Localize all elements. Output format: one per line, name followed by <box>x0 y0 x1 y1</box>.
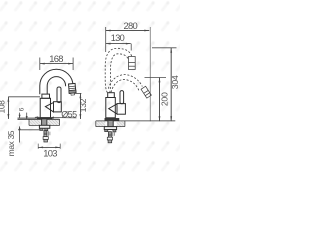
svg-text:130: 130 <box>111 33 125 43</box>
G3/8 label (right view) <box>113 132 115 137</box>
dim max35 arrow line <box>19 126 21 142</box>
spout gooseneck outer contour <box>40 69 73 94</box>
G3/8 label (left view) <box>48 131 50 136</box>
svg-text:168: 168 <box>49 53 63 64</box>
svg-text:200: 200 <box>159 92 169 106</box>
dim max35 extension line <box>18 129 41 131</box>
svg-text:Ø55: Ø55 <box>61 110 77 120</box>
spout gooseneck inner contour <box>47 77 65 95</box>
faucet body (left view) <box>40 98 50 117</box>
svg-text:304: 304 <box>170 75 180 89</box>
clamp bracket under deck (right view) <box>104 127 116 132</box>
svg-text:108: 108 <box>0 100 7 114</box>
dim 130 extension line <box>130 44 132 51</box>
base flange (left view) <box>37 118 52 119</box>
faucet body (right view) <box>106 98 116 118</box>
faucet cap (right view) <box>108 93 115 98</box>
svg-text:6: 6 <box>18 107 25 111</box>
dim 280 extension lines <box>106 27 151 121</box>
dim 103 line <box>38 146 60 148</box>
dim 306 extension line <box>152 47 177 49</box>
dashed aerator position 2 (tilted) <box>141 86 151 98</box>
handle mount (right view) <box>117 104 125 115</box>
dim 168 extension lines <box>40 58 73 71</box>
mounting shank through deck (right view) <box>108 121 113 127</box>
svg-text:280: 280 <box>124 20 138 31</box>
handle grip (left view) <box>57 87 61 103</box>
dim 200 line <box>159 78 161 122</box>
spout collar <box>42 94 50 98</box>
dim 130 line <box>106 43 131 45</box>
dim 280 line <box>106 30 150 32</box>
handle wedge (right view) <box>109 104 117 114</box>
clamp bracket under deck (left view) <box>39 125 49 130</box>
hose fitting (right view) <box>107 137 112 143</box>
handle mount box (left view) <box>54 102 62 112</box>
svg-text:132: 132 <box>78 98 88 112</box>
dim 132 extension line <box>74 92 81 94</box>
countertop deck (right view) <box>96 121 106 127</box>
dashed spout position 1 outer <box>105 48 132 92</box>
handle wedge (left view) <box>45 103 53 112</box>
leader Ø55 left arrow <box>35 116 77 118</box>
dim 6 extension line <box>18 117 37 119</box>
threaded stud (left view) <box>44 131 47 137</box>
dim 200 extension line <box>145 77 167 79</box>
mounting shank through deck (left view) <box>42 119 47 125</box>
watermark pattern grid <box>1 2 184 171</box>
svg-text:max 35: max 35 <box>6 130 16 156</box>
hose fitting (left view) <box>43 137 48 142</box>
handle grip (right view) <box>120 91 124 104</box>
dim 168 line with arrows <box>40 63 73 65</box>
dim 108 line <box>7 97 9 119</box>
base flange (right view) <box>105 118 119 121</box>
dim 108 extension line <box>8 96 40 98</box>
svg-text:103: 103 <box>43 148 57 159</box>
dashed aerator position 1 <box>129 57 136 70</box>
dashed spout position 2 arcs <box>108 75 142 93</box>
threaded stud (right view) <box>108 132 111 138</box>
aerator (left view) <box>68 83 76 95</box>
dim 6 arrows <box>19 113 28 120</box>
dim 132 line <box>79 93 81 119</box>
dim 306 line <box>170 48 172 121</box>
countertop deck (left view) <box>29 119 41 125</box>
dim 103 extension ticks <box>38 144 60 149</box>
